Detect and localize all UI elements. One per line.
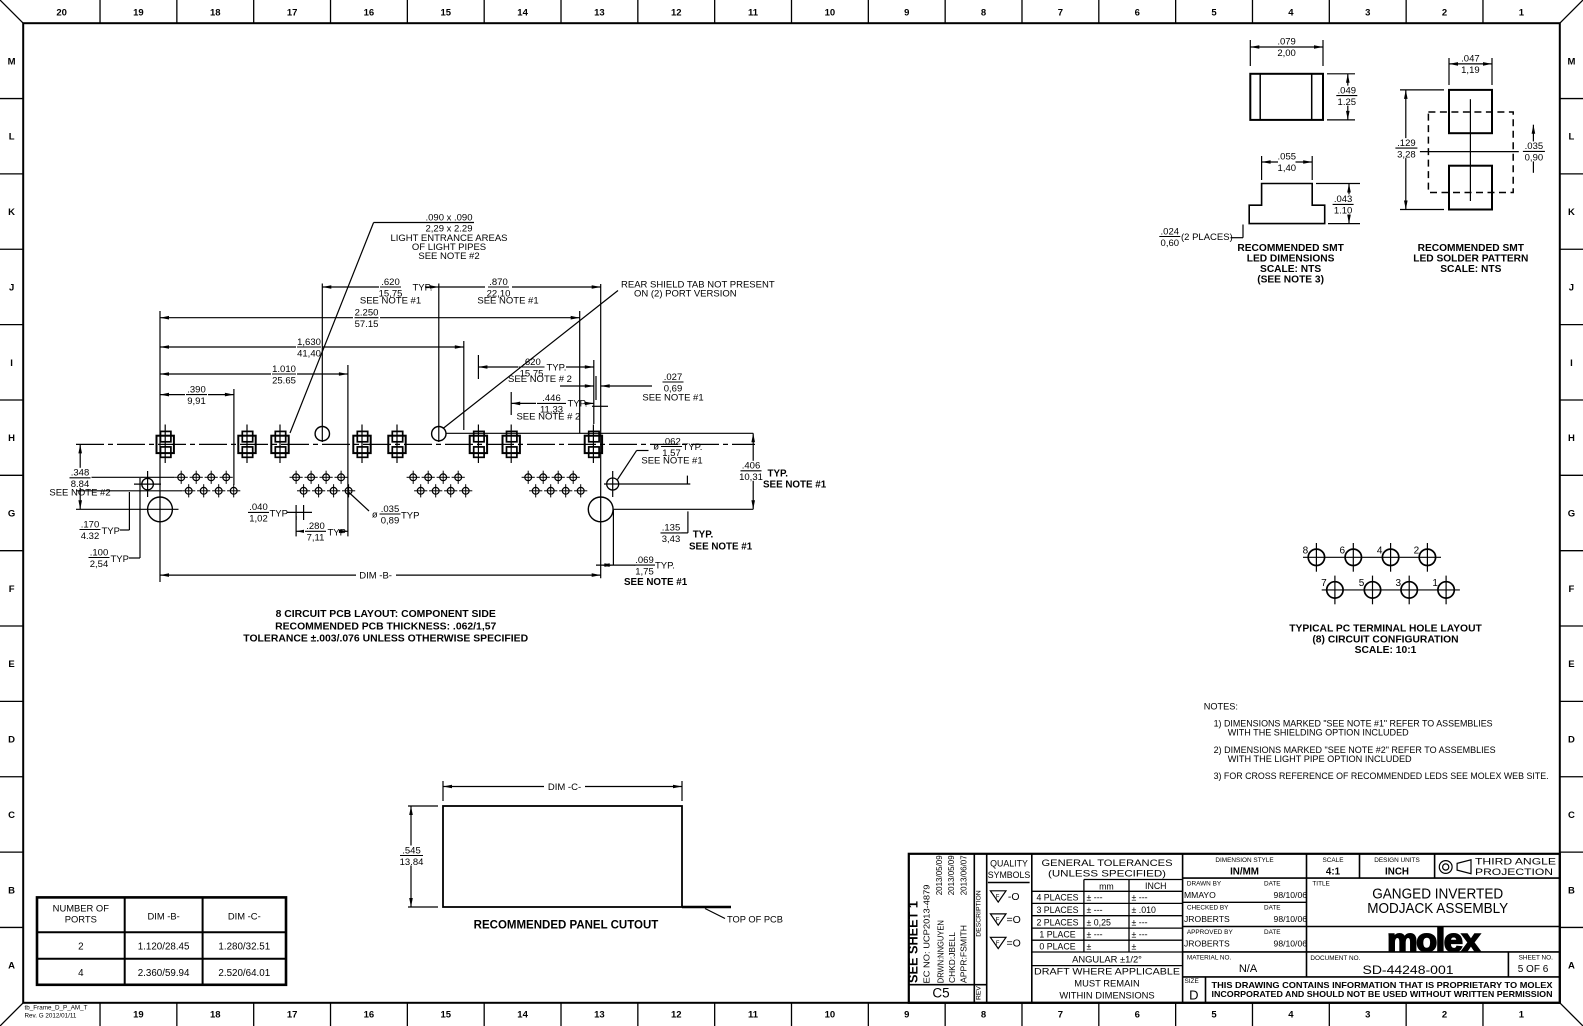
svg-text:G: G: [8, 509, 15, 520]
svg-text:TYP: TYP: [401, 510, 419, 521]
svg-text:9,91: 9,91: [187, 396, 206, 407]
svg-text:0 PLACE: 0 PLACE: [1039, 941, 1075, 951]
svg-text:WITH THE LIGHT PIPE OPTION INC: WITH THE LIGHT PIPE OPTION INCLUDED: [1228, 754, 1412, 764]
svg-text:DIM -B-: DIM -B-: [359, 571, 392, 582]
svg-text:11: 11: [748, 8, 759, 19]
svg-text:.055: .055: [1278, 152, 1297, 163]
svg-text:4: 4: [78, 968, 84, 979]
svg-text:2.360/59.94: 2.360/59.94: [138, 968, 190, 979]
svg-text:1.280/32.51: 1.280/32.51: [218, 942, 270, 953]
svg-text:2: 2: [78, 942, 83, 953]
svg-text:SEE NOTE #1: SEE NOTE #1: [477, 295, 538, 306]
svg-text:.446: .446: [542, 393, 561, 404]
svg-text:1,19: 1,19: [1461, 65, 1480, 76]
svg-text:NOTES:: NOTES:: [1204, 701, 1238, 711]
svg-text:.620: .620: [381, 277, 400, 288]
svg-text:8: 8: [981, 8, 986, 19]
svg-text:-O: -O: [1008, 891, 1020, 903]
svg-text:C5: C5: [932, 986, 949, 1001]
svg-text:19: 19: [133, 1010, 144, 1021]
svg-text:1: 1: [1519, 8, 1525, 19]
svg-text:H: H: [1568, 433, 1575, 444]
svg-text:A: A: [1568, 961, 1575, 972]
svg-text:tb_Frame_D_P_AM_T: tb_Frame_D_P_AM_T: [25, 1005, 88, 1012]
svg-text:Rev. G 2012/01/11: Rev. G 2012/01/11: [25, 1013, 77, 1020]
svg-text:3,43: 3,43: [662, 534, 681, 545]
svg-text:INCH: INCH: [1145, 881, 1167, 891]
svg-text:± .010: ± .010: [1132, 905, 1157, 915]
svg-text:3) FOR CROSS REFERENCE OF RECO: 3) FOR CROSS REFERENCE OF RECOMMENDED LE…: [1214, 771, 1549, 781]
svg-text:LED SOLDER PATTERN: LED SOLDER PATTERN: [1413, 254, 1528, 265]
svg-text:9: 9: [904, 1010, 909, 1021]
svg-text:CHECKED BY: CHECKED BY: [1187, 905, 1229, 912]
svg-text:7: 7: [1321, 578, 1327, 589]
svg-text:C: C: [8, 810, 15, 821]
svg-text:B: B: [1568, 885, 1575, 896]
svg-text:12: 12: [671, 8, 682, 19]
svg-text:.406: .406: [742, 461, 761, 472]
svg-text:SEE NOTE #1: SEE NOTE #1: [641, 456, 702, 467]
svg-text:.079: .079: [1277, 37, 1296, 48]
svg-text:3: 3: [1395, 578, 1401, 589]
svg-text:±: ±: [1132, 941, 1137, 951]
svg-text:IN/MM: IN/MM: [1230, 867, 1259, 878]
svg-text:1 PLACE: 1 PLACE: [1039, 930, 1075, 940]
svg-text:.043: .043: [1334, 194, 1353, 205]
svg-text:12: 12: [671, 1010, 682, 1021]
svg-text:1.10: 1.10: [1334, 206, 1353, 217]
svg-text:D: D: [1568, 735, 1575, 746]
svg-text:TITLE: TITLE: [1312, 880, 1329, 887]
svg-text:.069: .069: [635, 555, 654, 566]
svg-text:APPROVED BY: APPROVED BY: [1187, 929, 1234, 936]
svg-text:10: 10: [825, 1010, 836, 1021]
svg-text:INCORPORATED AND SHOULD NOT BE: INCORPORATED AND SHOULD NOT BE USED WITH…: [1212, 989, 1553, 999]
svg-text:F: F: [1568, 584, 1574, 595]
svg-text:41,40: 41,40: [297, 348, 321, 359]
svg-text:TYP: TYP: [102, 526, 120, 537]
svg-text:0,90: 0,90: [1525, 153, 1544, 164]
svg-text:.040: .040: [249, 502, 268, 513]
svg-text:2013/06/07: 2013/06/07: [959, 855, 969, 895]
svg-text:15: 15: [440, 1010, 451, 1021]
svg-text:16: 16: [364, 8, 375, 19]
svg-text:J: J: [9, 282, 14, 293]
svg-text:15: 15: [440, 8, 451, 19]
svg-text:L: L: [9, 132, 15, 143]
svg-text:4: 4: [1288, 1010, 1294, 1021]
svg-text:DRAWN BY: DRAWN BY: [1187, 880, 1222, 887]
svg-text:REV: REV: [976, 986, 983, 1000]
svg-text:4: 4: [1288, 8, 1294, 19]
svg-text:.049: .049: [1338, 85, 1357, 96]
svg-text:2.250: 2.250: [355, 308, 379, 319]
svg-text:98/10/06: 98/10/06: [1274, 890, 1308, 900]
svg-text:SIZE: SIZE: [1185, 978, 1199, 985]
svg-text:1.120/28.45: 1.120/28.45: [138, 942, 190, 953]
svg-text:GENERAL TOLERANCES: GENERAL TOLERANCES: [1042, 858, 1173, 869]
svg-text:THIRD ANGLE: THIRD ANGLE: [1475, 855, 1556, 866]
svg-text:SEE SHEET 1: SEE SHEET 1: [907, 901, 921, 983]
svg-text:8: 8: [1303, 545, 1309, 556]
svg-text:K: K: [1568, 207, 1575, 218]
svg-text:± ---: ± ---: [1087, 905, 1103, 915]
svg-text:2: 2: [1442, 8, 1447, 19]
svg-text:WITH THE SHIELDING OPTION INCL: WITH THE SHIELDING OPTION INCLUDED: [1228, 728, 1409, 738]
svg-text:TOP OF PCB: TOP OF PCB: [727, 915, 783, 925]
svg-text:20: 20: [56, 8, 67, 19]
svg-text:1.25: 1.25: [1338, 97, 1357, 108]
svg-text:=O: =O: [1007, 938, 1021, 950]
svg-text:.024: .024: [1161, 226, 1180, 237]
svg-text:NUMBER OF: NUMBER OF: [53, 903, 110, 914]
svg-text:SHEET NO.: SHEET NO.: [1519, 955, 1554, 962]
svg-text:RECOMMENDED SMT: RECOMMENDED SMT: [1237, 243, 1344, 254]
svg-text:17: 17: [287, 1010, 298, 1021]
svg-text:17: 17: [287, 8, 298, 19]
svg-text:EC NO: UCP2013-4879: EC NO: UCP2013-4879: [922, 884, 932, 983]
svg-text:DATE: DATE: [1264, 929, 1281, 936]
svg-text:3: 3: [1365, 8, 1370, 19]
svg-text:± ---: ± ---: [1132, 893, 1148, 903]
svg-text:SEE NOTE #1: SEE NOTE #1: [763, 480, 827, 491]
svg-text:TYP.: TYP.: [683, 442, 703, 453]
svg-text:E: E: [8, 659, 14, 670]
svg-text:19: 19: [133, 8, 144, 19]
svg-text:.062: .062: [662, 436, 681, 447]
svg-text:TYP: TYP: [328, 528, 346, 539]
svg-text:L: L: [1568, 132, 1574, 143]
svg-text:.620: .620: [522, 357, 541, 368]
svg-text:.129: .129: [1397, 138, 1416, 149]
svg-text:DIMENSION STYLE: DIMENSION STYLE: [1215, 857, 1273, 864]
svg-text:DIM -C-: DIM -C-: [228, 911, 261, 922]
svg-text:SCALE: SCALE: [1323, 857, 1344, 864]
svg-text:SEE NOTE #1: SEE NOTE #1: [689, 541, 753, 552]
svg-text:9: 9: [904, 8, 909, 19]
svg-text:2: 2: [1414, 545, 1420, 556]
svg-text:13.84: 13.84: [400, 857, 424, 868]
svg-text:H: H: [8, 433, 15, 444]
svg-text:.348: .348: [71, 468, 90, 479]
svg-text:± 0,25: ± 0,25: [1087, 917, 1112, 927]
svg-text:TYP.: TYP.: [413, 282, 433, 293]
svg-text:3: 3: [1365, 1010, 1370, 1021]
svg-text:SEE NOTE #2: SEE NOTE #2: [49, 488, 110, 499]
svg-text:98/10/06: 98/10/06: [1274, 914, 1308, 924]
svg-text:APPR:FSMITH: APPR:FSMITH: [958, 925, 968, 983]
svg-text:=O: =O: [1007, 914, 1021, 926]
svg-text:6: 6: [1135, 1010, 1140, 1021]
svg-text:LED DIMENSIONS: LED DIMENSIONS: [1247, 254, 1335, 265]
svg-text:mm: mm: [1099, 881, 1114, 891]
svg-text:TYP: TYP: [270, 509, 288, 520]
svg-text:MATERIAL NO.: MATERIAL NO.: [1187, 954, 1232, 961]
svg-text:RECOMMENDED SMT: RECOMMENDED SMT: [1418, 243, 1525, 254]
svg-text:18: 18: [210, 1010, 221, 1021]
svg-text:14: 14: [517, 8, 528, 19]
svg-text:98/10/06: 98/10/06: [1274, 939, 1308, 949]
svg-text:10: 10: [825, 8, 836, 19]
svg-text:14: 14: [517, 1010, 528, 1021]
svg-text:8: 8: [981, 1010, 986, 1021]
svg-text:DESIGN UNITS: DESIGN UNITS: [1374, 857, 1419, 864]
svg-text:E: E: [1568, 659, 1574, 670]
svg-text:1.010: 1.010: [272, 364, 296, 375]
svg-text:.170: .170: [81, 519, 100, 530]
svg-text:4: 4: [1377, 545, 1383, 556]
svg-text:2,00: 2,00: [1277, 48, 1296, 59]
svg-text:.870: .870: [489, 277, 508, 288]
svg-text:CHKD:JBELL: CHKD:JBELL: [947, 932, 957, 983]
svg-text:.545: .545: [402, 845, 421, 856]
svg-text:TOLERANCE ±.003/.076 UNLESS OT: TOLERANCE ±.003/.076 UNLESS OTHERWISE SP…: [243, 634, 528, 645]
svg-text:± ---: ± ---: [1132, 917, 1148, 927]
svg-text:I: I: [1570, 358, 1573, 369]
svg-text:1,40: 1,40: [1278, 163, 1297, 174]
svg-text:6: 6: [1340, 545, 1346, 556]
svg-text:±: ±: [1087, 941, 1092, 951]
svg-text:(UNLESS SPECIFIED): (UNLESS SPECIFIED): [1048, 868, 1166, 879]
svg-text:7: 7: [1058, 8, 1063, 19]
svg-text:MMAYO: MMAYO: [1184, 890, 1216, 900]
svg-text:ON (2) PORT VERSION: ON (2) PORT VERSION: [634, 289, 737, 300]
svg-text:1,75: 1,75: [635, 566, 654, 577]
svg-text:2 PLACES: 2 PLACES: [1036, 917, 1078, 927]
svg-text:F: F: [996, 895, 1000, 901]
svg-text:.390: .390: [187, 384, 206, 395]
svg-text:57.15: 57.15: [355, 319, 379, 330]
svg-text:SD-44248-001: SD-44248-001: [1363, 963, 1454, 977]
svg-text:(SEE NOTE 3): (SEE NOTE 3): [1257, 275, 1324, 286]
svg-text:TYP.: TYP.: [568, 399, 588, 410]
svg-text:SCALE: NTS: SCALE: NTS: [1440, 264, 1501, 275]
svg-text:TYP: TYP: [111, 554, 129, 565]
svg-text:MUST REMAIN: MUST REMAIN: [1074, 978, 1139, 989]
svg-text:DIM -C-: DIM -C-: [548, 782, 581, 793]
svg-text:16: 16: [364, 1010, 375, 1021]
svg-text:2,54: 2,54: [90, 559, 109, 570]
svg-text:B: B: [8, 885, 15, 896]
svg-text:13: 13: [594, 8, 605, 19]
svg-text:.035: .035: [381, 504, 400, 515]
svg-text:SCALE: NTS: SCALE: NTS: [1260, 264, 1321, 275]
svg-text:ANGULAR ±1/2°: ANGULAR ±1/2°: [1072, 953, 1142, 964]
svg-text:K: K: [8, 207, 15, 218]
svg-text:11: 11: [748, 1010, 759, 1021]
svg-text:4.32: 4.32: [81, 531, 100, 542]
svg-text:PORTS: PORTS: [65, 914, 97, 925]
svg-text:DIM -B-: DIM -B-: [147, 911, 179, 922]
svg-text:.090 x .090: .090 x .090: [425, 212, 472, 223]
svg-text:F: F: [996, 941, 1000, 947]
svg-text:3,28: 3,28: [1397, 149, 1416, 160]
svg-text:TYP.: TYP.: [768, 469, 789, 480]
svg-text:10,31: 10,31: [739, 472, 763, 483]
svg-text:7,11: 7,11: [307, 533, 325, 544]
svg-text:13: 13: [594, 1010, 605, 1021]
svg-text:QUALITY: QUALITY: [990, 859, 1028, 869]
svg-text:4 PLACES: 4 PLACES: [1036, 893, 1078, 903]
svg-text:SEE NOTE # 2: SEE NOTE # 2: [516, 412, 580, 423]
svg-text:molex: molex: [1387, 922, 1481, 959]
svg-text:.100: .100: [90, 547, 109, 558]
svg-text:D: D: [8, 735, 15, 746]
svg-text:SEE NOTE #1: SEE NOTE #1: [624, 577, 688, 588]
svg-text:5: 5: [1359, 578, 1365, 589]
svg-text:INCH: INCH: [1385, 867, 1409, 878]
svg-text:C: C: [1568, 810, 1575, 821]
svg-text:1: 1: [1432, 578, 1438, 589]
svg-text:DOCUMENT NO.: DOCUMENT NO.: [1310, 955, 1360, 962]
svg-text:SEE NOTE #1: SEE NOTE #1: [360, 295, 421, 306]
svg-text:0,89: 0,89: [381, 515, 400, 526]
svg-text:.280: .280: [306, 521, 325, 532]
svg-text:2013/05/09: 2013/05/09: [946, 855, 956, 895]
svg-text:5: 5: [1211, 8, 1217, 19]
svg-text:TYPICAL PC TERMINAL HOLE LAYOU: TYPICAL PC TERMINAL HOLE LAYOUT: [1289, 624, 1482, 635]
svg-text:SEE NOTE #1: SEE NOTE #1: [642, 392, 703, 403]
svg-text:SYMBOLS: SYMBOLS: [988, 870, 1031, 880]
svg-text:3 PLACES: 3 PLACES: [1036, 905, 1078, 915]
svg-text:M: M: [8, 56, 16, 67]
svg-text:D: D: [1189, 988, 1198, 1003]
svg-text:PROJECTION: PROJECTION: [1475, 866, 1553, 877]
svg-text:TYP.: TYP.: [693, 530, 714, 541]
svg-text:ø: ø: [372, 509, 378, 520]
svg-text:8 CIRCUIT PCB LAYOUT: COMPONEN: 8 CIRCUIT PCB LAYOUT: COMPONENT SIDE: [276, 609, 496, 620]
svg-text:WITHIN DIMENSIONS: WITHIN DIMENSIONS: [1059, 989, 1154, 1000]
svg-text:MODJACK ASSEMBLY: MODJACK ASSEMBLY: [1367, 901, 1508, 917]
svg-text:DRAFT WHERE APPLICABLE: DRAFT WHERE APPLICABLE: [1034, 966, 1180, 977]
svg-text:6: 6: [1135, 8, 1140, 19]
svg-text:JROBERTS: JROBERTS: [1184, 914, 1230, 924]
svg-text:1,630: 1,630: [297, 337, 321, 348]
svg-text:.135: .135: [662, 523, 681, 534]
svg-text:(2 PLACES): (2 PLACES): [1181, 232, 1233, 243]
svg-text:JROBERTS: JROBERTS: [1184, 939, 1230, 949]
svg-text:ø: ø: [653, 442, 659, 453]
svg-text:± ---: ± ---: [1087, 930, 1103, 940]
svg-text:5 OF 6: 5 OF 6: [1518, 964, 1549, 975]
svg-text:N/A: N/A: [1239, 963, 1258, 975]
svg-text:25.65: 25.65: [272, 375, 296, 386]
svg-text:.035: .035: [1525, 141, 1544, 152]
svg-text:SEE NOTE #2: SEE NOTE #2: [418, 251, 479, 262]
svg-text:RECOMMENDED PANEL CUTOUT: RECOMMENDED PANEL CUTOUT: [474, 920, 659, 932]
svg-text:DATE: DATE: [1264, 905, 1281, 912]
svg-text:2.520/64.01: 2.520/64.01: [218, 968, 270, 979]
svg-text:± ---: ± ---: [1132, 930, 1148, 940]
svg-text:1: 1: [1519, 1010, 1525, 1021]
svg-text:DRWN:NNGUYEN: DRWN:NNGUYEN: [935, 920, 945, 983]
svg-text:G: G: [1568, 509, 1575, 520]
svg-text:2: 2: [1442, 1010, 1447, 1021]
svg-text:.047: .047: [1461, 54, 1480, 65]
svg-text:M: M: [1567, 56, 1575, 67]
svg-text:SCALE: 10:1: SCALE: 10:1: [1355, 645, 1417, 656]
svg-text:1,02: 1,02: [249, 514, 268, 525]
svg-text:A: A: [8, 961, 15, 972]
svg-text:4:1: 4:1: [1326, 867, 1341, 878]
svg-text:TYP.: TYP.: [547, 362, 567, 373]
svg-text:SEE NOTE # 2: SEE NOTE # 2: [508, 374, 572, 385]
svg-text:7: 7: [1058, 1010, 1063, 1021]
svg-text:5: 5: [1211, 1010, 1217, 1021]
svg-text:0,60: 0,60: [1161, 238, 1180, 249]
svg-text:± ---: ± ---: [1087, 893, 1103, 903]
svg-text:F: F: [9, 584, 15, 595]
svg-text:F: F: [996, 918, 1000, 924]
svg-text:J: J: [1569, 282, 1574, 293]
svg-text:DESCRIPTION: DESCRIPTION: [976, 890, 983, 937]
svg-text:.027: .027: [664, 372, 683, 383]
svg-text:TYP.: TYP.: [655, 560, 675, 571]
svg-text:18: 18: [210, 8, 221, 19]
svg-text:RECOMMENDED PCB THICKNESS: .06: RECOMMENDED PCB THICKNESS: .062/1,57: [275, 621, 496, 632]
svg-text:I: I: [10, 358, 13, 369]
svg-text:(8) CIRCUIT CONFIGURATION: (8) CIRCUIT CONFIGURATION: [1312, 634, 1458, 645]
svg-text:DATE: DATE: [1264, 880, 1281, 887]
svg-text:2013/05/09: 2013/05/09: [934, 855, 944, 895]
